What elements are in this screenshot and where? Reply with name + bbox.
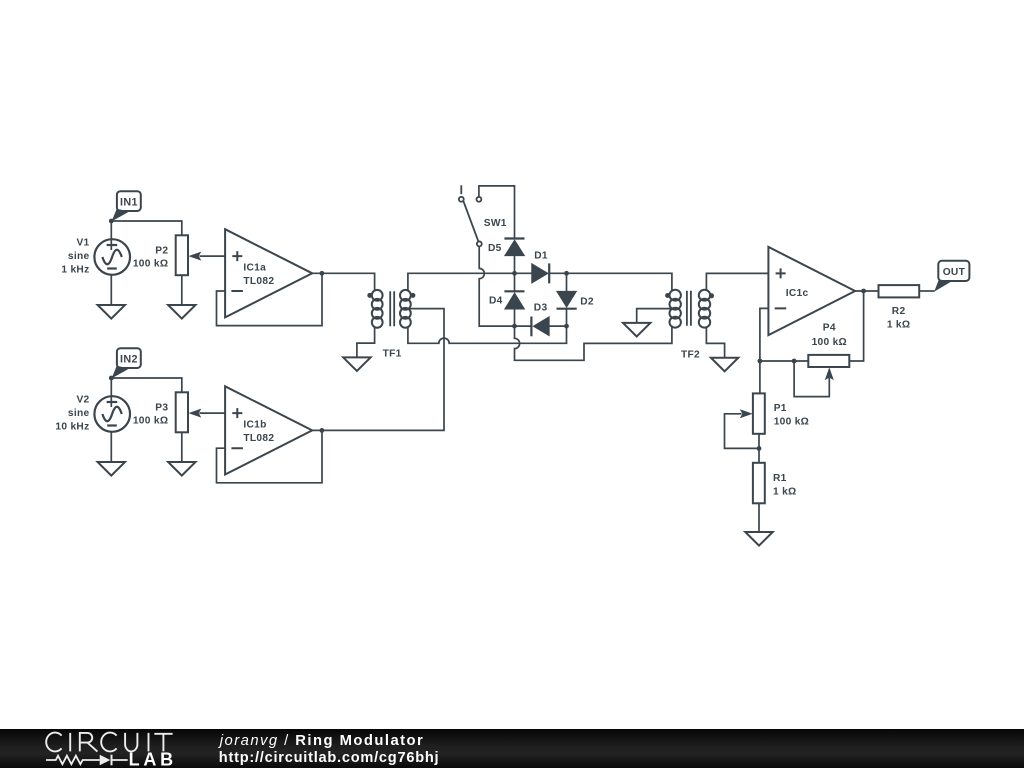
svg-text:IC1a: IC1a	[243, 262, 266, 273]
node IN2 junction	[109, 376, 114, 381]
svg-text:100 kΩ: 100 kΩ	[133, 259, 168, 270]
wire P4 right terminal up to output node	[849, 291, 863, 361]
svg-text:IN2: IN2	[120, 353, 138, 365]
node feedback/P4 left	[758, 359, 763, 364]
diode D1	[532, 264, 547, 282]
flag OUT	[938, 261, 969, 281]
node IC1b output	[320, 428, 325, 433]
wire TF2 secondary top to IC1c + input	[706, 273, 768, 290]
ground TF1	[343, 357, 370, 371]
wiper arrow P3	[188, 409, 201, 418]
svg-text:1 kHz: 1 kHz	[61, 264, 89, 275]
transformer TF2	[665, 290, 714, 328]
wire bottom bus node A2 to D3 cathode, D3 anode to node C	[515, 325, 567, 327]
schematic text labels	[55, 196, 965, 497]
svg-text:100 kΩ: 100 kΩ	[812, 337, 847, 348]
svg-text:joranvg / Ring Modulator: joranvg / Ring Modulator	[218, 733, 423, 749]
svg-text:sine: sine	[68, 408, 90, 419]
node ring bottom-left	[512, 324, 517, 329]
svg-text:http://circuitlab.com/cg76bhj: http://circuitlab.com/cg76bhj	[219, 750, 439, 766]
wire node B to D2 anode, D2 cathode to node C	[566, 273, 568, 326]
CircuitLab logo: CIRCUIT thin letters	[46, 733, 173, 766]
wire P4 wiper loop	[794, 361, 829, 397]
svg-text:D5: D5	[488, 243, 502, 254]
bar title text	[218, 733, 439, 766]
op-amp IC1b	[225, 386, 312, 474]
svg-text:sine: sine	[68, 251, 90, 262]
wire IN2 node to V2 top	[110, 378, 112, 407]
wire R2 to OUT flag	[919, 290, 934, 292]
wire IC1c feedback (inverting input down to P4/P1 node)	[760, 308, 769, 361]
wire node down to P1	[759, 361, 761, 393]
ground below P3	[168, 462, 195, 476]
wire IC1a feedback loop	[217, 273, 323, 325]
voltage source V2	[94, 396, 130, 432]
svg-text:TF2: TF2	[681, 350, 700, 361]
svg-text:R2: R2	[892, 306, 906, 317]
wire IC1b output to TF1 center tap	[312, 309, 444, 431]
potentiometer P2	[176, 235, 188, 275]
wire IN2 node to P3 top	[111, 378, 182, 392]
wire node to P4 left terminal	[760, 360, 808, 362]
wire SW1 B terminal to D5 cathode	[479, 186, 515, 239]
wire SW1 C terminal to ring node A2 (hop over top bus)	[479, 247, 514, 327]
wire IC1b feedback loop	[217, 430, 323, 482]
logo resistor + diode	[46, 756, 128, 765]
wiper arrow P4	[825, 367, 834, 380]
wire node A to D4 cathode, D4 anode to node A2	[514, 273, 516, 326]
svg-text:1 kΩ: 1 kΩ	[887, 319, 911, 330]
svg-text:TL082: TL082	[243, 276, 274, 287]
wire TF1 primary bottom to ground	[357, 327, 375, 358]
wire IC1a output to TF1 primary	[312, 273, 374, 291]
potentiometer P1	[753, 393, 765, 433]
svg-text:SW1: SW1	[484, 218, 507, 229]
voltage source V1	[94, 239, 130, 275]
wire V1 bottom to ground	[110, 275, 112, 305]
diode D5	[505, 241, 524, 256]
svg-text:LAB: LAB	[129, 750, 174, 768]
wire P2 wiper to IC1a + input	[200, 255, 226, 257]
op-amp IC1c	[768, 247, 855, 335]
resistor R1	[753, 463, 765, 504]
svg-text:V2: V2	[76, 394, 89, 405]
wire IC1c output to R2	[855, 290, 878, 292]
node P1/R1 junction	[757, 446, 762, 451]
resistor R2	[879, 285, 920, 297]
node IC1a output	[320, 271, 325, 276]
op-amp IC1a	[225, 229, 312, 317]
svg-text:P3: P3	[155, 402, 168, 413]
wire V2 bottom to ground	[110, 432, 112, 462]
wire P1 bottom to R1 top	[758, 434, 760, 463]
svg-text:D3: D3	[534, 302, 548, 313]
svg-text:V1: V1	[76, 237, 89, 248]
ground below V2	[98, 462, 125, 476]
potentiometer P4	[808, 355, 849, 367]
node P4 wiper join	[792, 359, 797, 364]
node ring bottom-right	[564, 324, 569, 329]
node IN1 junction	[109, 219, 114, 224]
svg-text:D1: D1	[534, 251, 548, 262]
svg-text:100 kΩ: 100 kΩ	[133, 416, 168, 427]
svg-text:D2: D2	[580, 296, 594, 307]
node IC1c output	[861, 289, 866, 294]
flag IN2	[117, 348, 141, 368]
bottom bar	[0, 729, 1024, 768]
diode D4	[505, 294, 524, 309]
wire P3 wiper to IC1b + input	[200, 412, 226, 414]
wire P1 wiper loop	[725, 414, 760, 449]
ground below V1	[98, 305, 125, 319]
switch SW1	[459, 185, 482, 246]
transformer TF1	[367, 290, 415, 328]
svg-text:1 kΩ: 1 kΩ	[773, 487, 797, 498]
svg-text:IN1: IN1	[120, 196, 138, 208]
wire ring node A2 down to TF2 primary bottom (hop over TF1 wire)	[515, 326, 672, 360]
wire P3 bottom to ground	[181, 432, 183, 462]
wire D1 cathode to node B, node B to TF2 primary top	[549, 273, 672, 291]
svg-text:10 kHz: 10 kHz	[55, 421, 89, 432]
svg-text:P4: P4	[823, 323, 836, 334]
wire D5 anode to node A	[514, 255, 516, 273]
flag IN1	[117, 191, 141, 211]
ground below R1	[745, 532, 772, 546]
ground below P2	[168, 305, 195, 319]
svg-text:R1: R1	[773, 473, 787, 484]
potentiometer P3	[176, 392, 188, 432]
wire R1 bottom to ground	[758, 503, 760, 532]
svg-text:IC1b: IC1b	[243, 419, 266, 430]
diode D3	[534, 317, 549, 335]
svg-text:IC1c: IC1c	[786, 288, 809, 299]
wire TF1 secondary bottom to ring node C (hop over carrier wire)	[408, 326, 567, 343]
wire TF2 secondary bottom to ground	[706, 327, 724, 358]
ground TF2 center tap	[623, 323, 650, 337]
svg-text:P2: P2	[155, 245, 168, 256]
wire P2 bottom to ground	[181, 275, 183, 305]
svg-text:100 kΩ: 100 kΩ	[774, 416, 809, 427]
wire TF2 primary center tap to ground	[637, 309, 671, 323]
svg-text:D4: D4	[489, 296, 503, 307]
node ring top-left	[512, 271, 517, 276]
wire TF1 secondary top to ring node A	[408, 273, 515, 291]
diode D2	[557, 292, 576, 307]
svg-text:OUT: OUT	[943, 267, 966, 278]
svg-text:P1: P1	[774, 403, 787, 414]
wire IN1 node to V1 top	[110, 221, 112, 250]
wire top bus node A to D1	[515, 272, 533, 274]
wire IN1 node to P2 top	[111, 221, 182, 235]
ground TF2 secondary	[711, 358, 738, 372]
svg-text:TL082: TL082	[243, 433, 274, 444]
wiper arrow P2	[188, 252, 201, 261]
node ring top-right	[564, 271, 569, 276]
svg-text:TF1: TF1	[383, 349, 402, 360]
wiper arrow P1	[740, 409, 753, 418]
